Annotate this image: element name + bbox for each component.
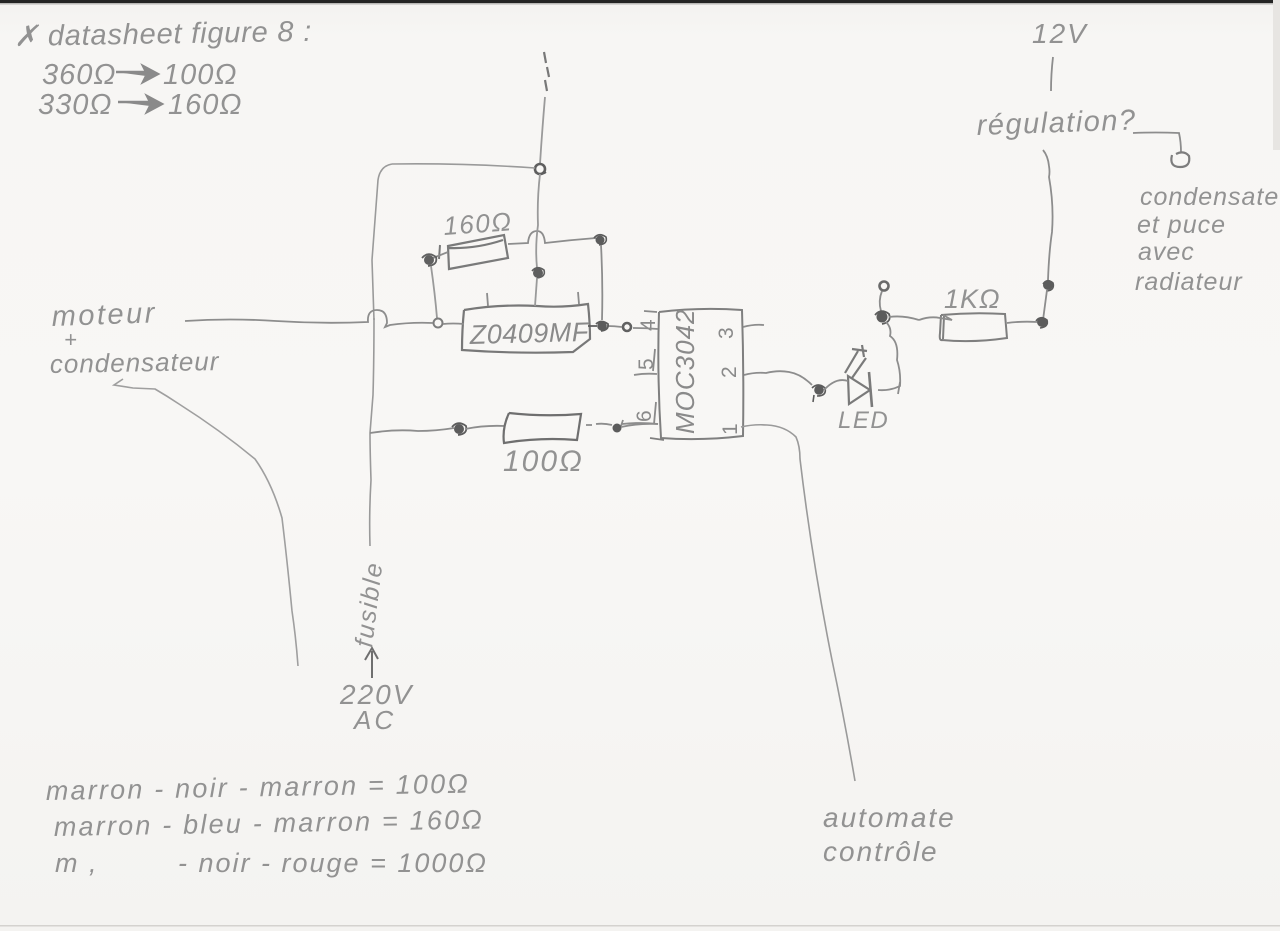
wire: 12V stub [1051,57,1053,91]
wire: mains circle to Z0409 left [443,323,464,326]
wire: 100 ohm branch from fuse line [370,428,454,433]
wire: moteur tail curve [114,379,298,666]
wire: pointer from regulation to capacitor note [1133,133,1181,153]
wire: top-left branch to node [392,164,535,168]
wire: MOC pin 4 lead [633,328,658,329]
svg-text:automate: automate [823,802,956,833]
wire: 160 left node down to mains wire [431,266,437,318]
wire: cathode node down to LED cathode [878,322,900,390]
wire: centre vertical node down to Z0409 [536,174,540,268]
wire: dot to MOC pin 6 [621,424,658,427]
wire: 160 right node down to Z0409 output [601,245,602,320]
wire: Z0409 right to open circle [607,326,622,327]
svg-text:1KΩ: 1KΩ [944,284,1001,314]
resistor: 160 ohm body [448,235,508,269]
wire: MOC pin 5 lead [634,374,657,375]
junction: 12V rail dot [1043,280,1053,290]
junction: 1K right lead dot [1037,317,1047,327]
svg-text:360Ω: 360Ω [42,59,116,91]
annotation: 360 ohm to 100 ohm [42,59,237,91]
LED D1 symbol [845,345,872,407]
tick at LED cathode wire corner [898,382,900,394]
arrow: 220V feed [365,648,378,678]
gate tick marks on top of Z0409 [487,293,488,306]
wire: left vertical (mains/fuse) upper part [372,164,392,320]
svg-text:1: 1 [719,423,742,435]
wire: left vertical through to fuse [370,318,374,546]
terminal: open circle above LED cathode node [880,282,889,291]
svg-text:MOC3042: MOC3042 [670,309,700,435]
wire: circle down to cathode node [880,291,882,311]
wire: moteur horizontal with arch over fuse line [185,310,433,327]
annotation: automate controle [823,802,956,867]
junction: 160 left node dot [424,255,434,265]
annotation: 330 ohm to 160 ohm [38,89,242,121]
triac U2 Z0409MF body [462,304,590,353]
junction: dot on centre vertical [533,268,543,278]
wire: centre vertical into Z0409 top [535,278,537,306]
svg-text:100Ω: 100Ω [503,445,584,478]
label: moteur + condensateur [50,297,220,379]
wire: MOC pin 1 to automate [741,425,855,781]
optocoupler U1 MOC3042 body [658,309,743,439]
wire: MOC pin 6 lead [621,420,658,426]
resistor: 1K ohm body [940,313,1007,341]
junction: Z0409 right output dot [597,321,607,331]
wire: 1K right lead [1007,322,1037,323]
junction: 100 ohm left dot [454,424,464,434]
terminal: open circle between Z0409 and MOC pin4 [623,323,631,331]
svg-text:régulation?: régulation? [976,104,1137,142]
junction: LED cathode node blob [877,312,888,323]
wire: 160 left lead to node [433,252,448,258]
wire: 1K left lead [919,315,952,320]
wire: dashed mains line at top [544,52,549,91]
annotation: datasheet note line 1 [14,16,313,53]
label: 220V AC [339,679,414,735]
svg-text:radiateur: radiateur [1135,268,1243,296]
svg-text:LED: LED [838,407,889,434]
svg-text:et puce: et puce [1137,211,1226,239]
annotation: colour code line 3 [55,848,488,878]
svg-text:2: 2 [718,366,741,378]
wire: cathode node to 1K [889,316,919,320]
wire: MOC pin 3 lead [743,325,764,327]
svg-text:m ,: m , [55,848,99,878]
wire: 100 ohm right lead [586,424,612,425]
node: top junction ring [535,164,545,174]
svg-text:contrôle: contrôle [823,836,939,867]
svg-text:6: 6 [633,410,656,422]
wire: centre vertical from dashes to node [540,97,545,164]
wire: 160 right lead with arch over centre line [508,231,596,244]
junction: 160 right node dot [596,236,605,245]
svg-text:avec: avec [1138,238,1195,266]
junction: LED anode dot [814,385,824,395]
svg-text:condensateur: condensateur [50,346,220,379]
annotation: condensateur et puce avec radiateur [1135,183,1280,296]
wire: 12V rail down to 1K node [1043,150,1053,280]
svg-text:- noir - rouge = 1000Ω: - noir - rouge = 1000Ω [178,848,488,878]
resistor: 100 ohm body [504,413,581,443]
svg-text:3: 3 [715,327,738,339]
wire: anode arc to LED [824,380,848,390]
wire: dot to 100 ohm body [465,426,505,429]
wire: junction down to 1K right lead [1043,290,1047,320]
wire: MOC pin2 to anode node [744,371,812,385]
svg-text:12V: 12V [1032,18,1088,49]
terminal: small circle on mains wire below 160 [434,319,443,328]
svg-text:✗ datasheet figure 8 :: ✗ datasheet figure 8 : [14,16,313,53]
svg-text:Z0409MF: Z0409MF [468,317,590,350]
tick on 160 ohm left lead [439,245,440,259]
svg-text:100Ω: 100Ω [163,59,237,91]
svg-text:AC: AC [352,705,396,735]
svg-text:160Ω: 160Ω [168,89,242,121]
junction: small dot right of 100 ohm [613,424,622,433]
svg-text:330Ω: 330Ω [38,89,112,121]
svg-text:condensateur: condensateur [1140,183,1280,211]
terminal: small circle on capacitor pointer [1171,152,1189,167]
